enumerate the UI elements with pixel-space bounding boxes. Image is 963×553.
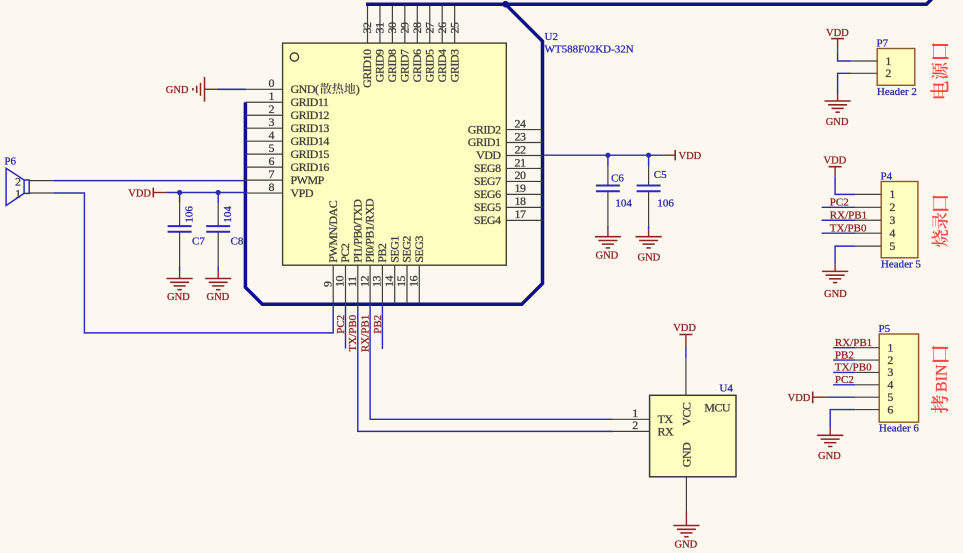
svg-text:SEG5: SEG5 xyxy=(474,200,501,214)
svg-text:GRID11: GRID11 xyxy=(291,95,329,109)
svg-text:23: 23 xyxy=(515,129,527,143)
svg-text:17: 17 xyxy=(515,207,527,221)
svg-text:C6: C6 xyxy=(611,173,624,185)
svg-text:GRID14: GRID14 xyxy=(291,134,330,148)
svg-text:GND: GND xyxy=(638,253,661,264)
svg-text:2: 2 xyxy=(632,418,638,432)
svg-text:GND: GND xyxy=(826,117,849,128)
svg-text:20: 20 xyxy=(515,168,527,182)
svg-text:18: 18 xyxy=(515,194,527,208)
svg-text:GRID16: GRID16 xyxy=(291,160,330,174)
svg-text:GND: GND xyxy=(680,442,694,467)
svg-text:PC2: PC2 xyxy=(835,374,854,386)
svg-text:19: 19 xyxy=(515,181,527,195)
svg-text:VDD: VDD xyxy=(679,151,702,162)
svg-text:2: 2 xyxy=(269,102,275,116)
svg-text:P4: P4 xyxy=(881,171,893,183)
svg-text:106: 106 xyxy=(657,197,674,209)
svg-text:VCC: VCC xyxy=(680,402,694,426)
svg-text:2: 2 xyxy=(885,66,891,80)
svg-text:PB2: PB2 xyxy=(835,349,854,361)
svg-text:GRID3: GRID3 xyxy=(447,49,461,82)
svg-text:SEG3: SEG3 xyxy=(412,236,426,263)
svg-text:U4: U4 xyxy=(719,383,733,395)
svg-text:7: 7 xyxy=(269,167,275,181)
svg-text:WT588F02KD-32N: WT588F02KD-32N xyxy=(545,44,634,56)
svg-text:PWMP: PWMP xyxy=(291,173,325,187)
svg-text:Header 5: Header 5 xyxy=(881,258,922,270)
svg-text:GND: GND xyxy=(207,292,230,303)
svg-text:C8: C8 xyxy=(231,236,244,248)
svg-text:C5: C5 xyxy=(654,169,667,181)
svg-text:GND: GND xyxy=(167,292,190,303)
svg-text:16: 16 xyxy=(407,276,421,288)
svg-text:GND: GND xyxy=(166,85,189,96)
svg-text:4: 4 xyxy=(269,128,275,142)
svg-text:5: 5 xyxy=(889,239,895,253)
svg-text:5: 5 xyxy=(269,141,275,155)
svg-text:P6: P6 xyxy=(4,156,16,168)
svg-text:21: 21 xyxy=(515,155,527,169)
svg-text:PB2: PB2 xyxy=(372,315,384,334)
svg-text:24: 24 xyxy=(515,116,527,130)
svg-text:VDD: VDD xyxy=(673,323,696,334)
svg-text:RX/PB1: RX/PB1 xyxy=(835,337,872,349)
svg-text:SEG7: SEG7 xyxy=(474,174,501,188)
svg-text:0: 0 xyxy=(269,76,275,90)
svg-text:3: 3 xyxy=(889,213,895,227)
svg-text:GRID1: GRID1 xyxy=(468,135,501,149)
svg-text:MCU: MCU xyxy=(704,401,731,415)
svg-text:104: 104 xyxy=(222,206,234,223)
svg-text:106: 106 xyxy=(184,206,196,223)
svg-text:RX: RX xyxy=(658,424,675,438)
svg-text:1: 1 xyxy=(269,89,275,103)
svg-text:GRID13: GRID13 xyxy=(291,121,330,135)
svg-text:RX/PB1: RX/PB1 xyxy=(830,209,867,221)
svg-text:GND: GND xyxy=(675,539,698,548)
svg-text:1: 1 xyxy=(889,187,895,201)
svg-text:VDD: VDD xyxy=(788,393,811,404)
svg-text:SEG8: SEG8 xyxy=(474,161,501,175)
svg-text:3: 3 xyxy=(269,115,275,129)
svg-text:GRID2: GRID2 xyxy=(468,122,501,136)
svg-text:GRID12: GRID12 xyxy=(291,108,330,122)
svg-text:22: 22 xyxy=(515,142,527,156)
svg-text:4: 4 xyxy=(889,226,895,240)
svg-text:VDD: VDD xyxy=(128,188,151,199)
svg-text:TX/PB0: TX/PB0 xyxy=(835,362,872,374)
svg-text:6: 6 xyxy=(269,154,275,168)
svg-text:GND(: GND( xyxy=(291,82,319,96)
svg-text:1: 1 xyxy=(15,187,21,201)
svg-text:25: 25 xyxy=(447,22,461,34)
svg-text:GND: GND xyxy=(824,289,847,300)
svg-text:GND: GND xyxy=(818,451,841,462)
svg-text:BIN: BIN xyxy=(934,364,951,392)
svg-text:TX/PB0: TX/PB0 xyxy=(830,222,867,234)
svg-text:GRID15: GRID15 xyxy=(291,147,330,161)
svg-text:Header 2: Header 2 xyxy=(877,86,917,98)
svg-text:RX/PB1: RX/PB1 xyxy=(360,315,372,352)
svg-text:SEG4: SEG4 xyxy=(474,213,501,227)
svg-text:U2: U2 xyxy=(545,31,558,43)
svg-text:P7: P7 xyxy=(877,38,889,50)
svg-text:SEG6: SEG6 xyxy=(474,187,501,201)
svg-text:VDD: VDD xyxy=(476,148,501,162)
svg-text:C7: C7 xyxy=(192,235,205,247)
svg-text:6: 6 xyxy=(887,402,893,416)
svg-text:104: 104 xyxy=(615,197,632,209)
svg-text:2: 2 xyxy=(889,200,895,214)
svg-text:PC2: PC2 xyxy=(335,315,347,334)
svg-text:VPD: VPD xyxy=(291,186,314,200)
svg-text:VDD: VDD xyxy=(824,156,847,167)
svg-text:8: 8 xyxy=(269,180,275,194)
svg-text:GND: GND xyxy=(596,250,619,261)
svg-text:TX/PB0: TX/PB0 xyxy=(347,314,359,351)
svg-text:P5: P5 xyxy=(879,323,891,335)
svg-text:Header 6: Header 6 xyxy=(879,423,920,435)
svg-text:VDD: VDD xyxy=(826,28,849,39)
svg-text:PC2: PC2 xyxy=(830,197,849,209)
